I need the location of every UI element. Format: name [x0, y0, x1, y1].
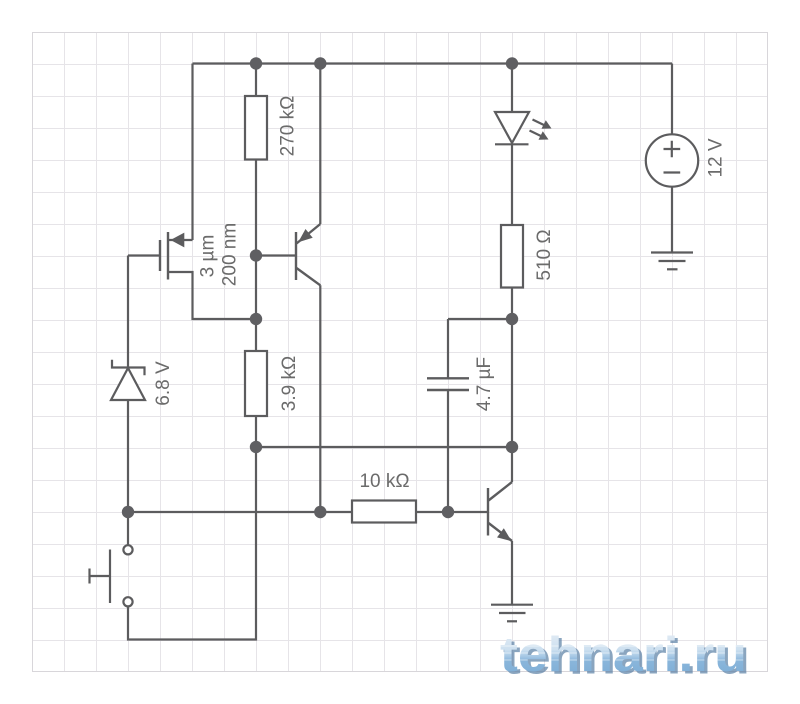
wire top power rail: [193, 62, 673, 64]
wire rail to 12V source top: [671, 64, 673, 135]
wire MOSFET gate lead: [128, 254, 160, 256]
MOSFET M1 (gate bar, channel bar, arrow): [160, 232, 168, 280]
wire zener anode down to node (128,512): [127, 400, 129, 512]
svg-text:4.7 µF: 4.7 µF: [474, 357, 495, 411]
wire rail to LED anode: [511, 64, 513, 113]
resistor 10 kOhm body: [352, 501, 416, 523]
junction node (256,255): [250, 249, 262, 261]
junction node (256,319): [250, 313, 262, 325]
wire capacitor top plate to node (448,319): [447, 319, 449, 378]
zener diode 6.8 V: [111, 360, 145, 400]
svg-text:tehnari.ru: tehnari.ru: [500, 628, 747, 682]
wire 510 bottom through node 319 to node 447: [511, 288, 513, 448]
LED D1 (triangle, cathode bar, light arrows): [495, 112, 547, 144]
wire node (512,447) to NPN collector bend: [511, 447, 513, 482]
pushbutton switch SW1: [90, 545, 133, 606]
MOSFET arrow: [171, 233, 185, 248]
transistor Q1 PNP (bar, emitter, collector): [296, 224, 320, 285]
wire NPN emitter down to ground: [511, 541, 513, 605]
junction node (320,63): [314, 57, 326, 69]
capacitor 4.7 uF plates: [427, 378, 469, 390]
junction node (256,447): [250, 441, 262, 453]
wire MOSFET source to node (256,319): [168, 272, 256, 319]
junction node (128,512): [122, 506, 134, 518]
junction node (512,63): [506, 57, 518, 69]
wire PNP base lead: [256, 254, 295, 256]
voltage source V1 12V: [646, 134, 698, 186]
svg-text:10 kΩ: 10 kΩ: [359, 471, 409, 492]
NPN emitter arrowhead: [497, 528, 512, 541]
wire 12V source bottom to ground: [671, 187, 673, 253]
LED light arrowheads: [539, 120, 552, 139]
wire node (448,319) to node (512,319): [448, 318, 512, 320]
svg-text:3 µm: 3 µm: [198, 235, 219, 278]
resistor 510 Ohm body: [501, 225, 523, 288]
wire row y=512 left of 10k: [128, 511, 352, 513]
wire switch bottom terminal down, right and up to node (256,447): [128, 447, 256, 640]
junction node (256,63): [250, 57, 262, 69]
svg-text:200 nm: 200 nm: [220, 223, 241, 286]
junction node (320,512): [314, 506, 326, 518]
wire LED cathode to 510 top: [511, 145, 513, 226]
wire 10k right lead to NPN base: [416, 511, 487, 513]
wire PNP collector column down to node (320,512): [319, 285, 321, 512]
wire gate column down to zener cathode: [127, 256, 129, 368]
svg-text:6.8 V: 6.8 V: [153, 361, 174, 406]
wire PNP emitter column from rail: [319, 64, 321, 225]
junction node (512,447): [506, 441, 518, 453]
resistor 3.9 kOhm body: [245, 351, 267, 416]
wire 270k bottom through base node to 3.9k top: [255, 160, 257, 352]
junction node (512,319): [506, 313, 518, 325]
junction node (448,512): [442, 506, 454, 518]
wire 3.9k bottom to node (256,447): [255, 416, 257, 447]
wire capacitor bottom plate to node (448,512): [447, 391, 449, 513]
tehnari.ru watermark: [498, 628, 750, 685]
wire node (128,512) to switch top terminal: [127, 512, 129, 545]
resistor 270 kOhm body: [245, 96, 267, 160]
ground under NPN emitter: [491, 605, 533, 622]
wire rail to 270k top: [255, 64, 257, 97]
wire MOSFET drain stub: [168, 239, 193, 241]
ground under 12V source: [651, 253, 693, 270]
wire rail left drop to MOSFET drain: [191, 64, 193, 241]
svg-text:270 kΩ: 270 kΩ: [278, 96, 299, 157]
wire node row y=447: [256, 446, 512, 448]
svg-text:510 Ω: 510 Ω: [534, 229, 555, 280]
PNP emitter arrowhead: [298, 229, 313, 242]
svg-text:3.9 kΩ: 3.9 kΩ: [279, 356, 300, 411]
svg-text:12 V: 12 V: [706, 138, 727, 177]
transistor Q2 NPN (bar, collector, emitter): [488, 482, 512, 541]
